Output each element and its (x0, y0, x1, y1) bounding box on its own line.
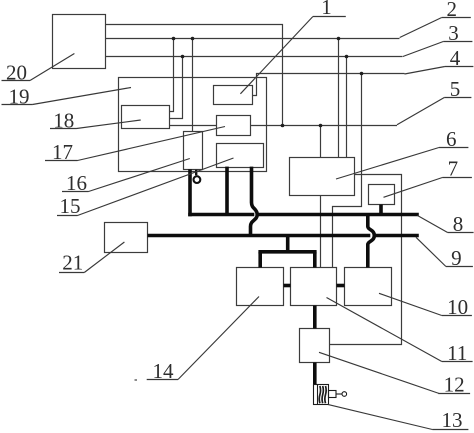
svg-text:10: 10 (447, 295, 468, 319)
svg-text:9: 9 (451, 246, 462, 270)
svg-text:7: 7 (448, 157, 459, 181)
svg-text:4: 4 (450, 46, 461, 70)
svg-text:16: 16 (66, 171, 87, 195)
svg-text:5: 5 (450, 77, 461, 101)
svg-text:13: 13 (442, 408, 463, 432)
svg-text:1: 1 (321, 0, 332, 19)
svg-text:17: 17 (52, 140, 73, 164)
svg-text:3: 3 (448, 21, 459, 45)
svg-text:2: 2 (447, 0, 458, 21)
svg-text:20: 20 (6, 60, 27, 84)
svg-text:18: 18 (53, 109, 74, 133)
svg-text:12: 12 (444, 373, 465, 397)
svg-text:21: 21 (62, 251, 83, 275)
svg-text:19: 19 (9, 84, 30, 108)
svg-text:14: 14 (153, 359, 175, 383)
svg-text:15: 15 (60, 194, 81, 218)
svg-text:8: 8 (453, 212, 464, 236)
svg-text:11: 11 (447, 341, 467, 365)
svg-text:6: 6 (446, 127, 457, 151)
